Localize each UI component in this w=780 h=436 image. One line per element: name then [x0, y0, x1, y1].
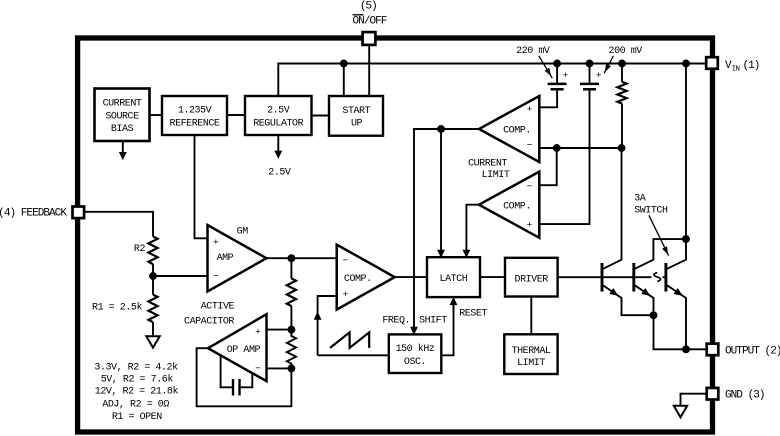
wire rail to switch collectors [685, 64, 687, 240]
resistor current sense lead [621, 64, 623, 82]
svg-text:ACTIVE: ACTIVE [201, 302, 235, 313]
junction emitters node [651, 312, 657, 318]
junction op-amp + input [288, 327, 294, 333]
box 2.5V REGULATOR [245, 96, 312, 135]
transistor Q2 base bar [632, 263, 635, 292]
wire ON/OFF pin to START UP [368, 40, 370, 96]
wire op-amp feedback loop [197, 348, 292, 406]
wire Q1 emitter [602, 285, 654, 316]
svg-text:SOURCE: SOURCE [105, 111, 139, 122]
svg-text:(1): (1) [743, 60, 760, 72]
wire bias to reference [150, 114, 163, 116]
wire junction to GM amp - input [153, 275, 208, 277]
svg-text:CAPACITOR: CAPACITOR [184, 317, 234, 328]
wire regulator to startup [312, 115, 330, 117]
arrow Q2 emitter [641, 288, 652, 299]
resistor R2 [148, 237, 157, 265]
junction output node [683, 346, 689, 352]
wire node to op-amp + input [267, 329, 292, 331]
sawtooth waveform symbol [330, 332, 369, 348]
svg-text:2.5V: 2.5V [267, 106, 290, 117]
wire oscillator reset to latch [441, 304, 453, 355]
box 150 kHz OSC [389, 334, 442, 373]
wire comp2 output to latch [466, 205, 479, 251]
svg-text:3A: 3A [634, 194, 646, 205]
svg-text:ADJ, R2 = 0Ω: ADJ, R2 = 0Ω [102, 399, 169, 410]
wire emitters to output [654, 315, 707, 349]
wire feedback pin to R2 [78, 212, 153, 237]
wire R1 to ground [152, 322, 154, 336]
svg-text:+: + [527, 104, 533, 115]
svg-text:DRIVER: DRIVER [515, 274, 549, 285]
svg-text:3.3V, R2 = 4.2k: 3.3V, R2 = 4.2k [94, 361, 178, 373]
wire Q2 emitter [634, 285, 654, 316]
capacitor integrator leads [221, 355, 253, 387]
box DRIVER [505, 258, 558, 297]
wire reference to GM amp + input [195, 135, 208, 238]
svg-text:−: − [527, 181, 533, 192]
junction GM output/active capacitor [288, 255, 294, 261]
wire VIN rail [278, 64, 712, 97]
pin (5) ON/OFF [363, 32, 376, 45]
capacitor integrator plates [233, 379, 240, 396]
arrow Q1 emitter [609, 288, 620, 299]
wire reference to regulator [227, 114, 245, 116]
wire Q3 collector [666, 239, 686, 269]
svg-text:150 kHz: 150 kHz [396, 343, 435, 355]
svg-text:THERMAL: THERMAL [512, 346, 551, 357]
resistor R1 [148, 295, 157, 323]
arrow into latch top 2 [463, 250, 471, 258]
wire junction to R1 [152, 276, 154, 295]
junction rail/switch collector [683, 61, 689, 67]
svg-text:LATCH: LATCH [440, 274, 468, 285]
wire comp2 - input [539, 148, 556, 185]
junction comp1 output/latch set [438, 126, 444, 132]
svg-text:200 mV: 200 mV [609, 46, 643, 57]
svg-text:(5): (5) [360, 1, 377, 13]
svg-text:GND (3): GND (3) [725, 390, 765, 402]
svg-text:R1 = 2.5k: R1 = 2.5k [92, 301, 142, 313]
comparator U2 current limit bottom [479, 172, 539, 238]
svg-text:12V, R2 = 21.8k: 12V, R2 = 21.8k [95, 386, 179, 398]
resistor Ra active capacitor [287, 278, 296, 306]
comparator U1 current limit top [479, 96, 539, 162]
junction rail/startup [341, 61, 347, 67]
svg-text:−: − [342, 255, 348, 266]
svg-text:BIAS: BIAS [111, 124, 134, 135]
capacitor C2 plates [580, 84, 599, 89]
box THERMAL LIMIT [504, 334, 557, 374]
svg-text:OP AMP: OP AMP [227, 345, 261, 356]
wire comp1 output to latch [440, 129, 442, 251]
svg-text:+: + [255, 327, 261, 338]
svg-text:−: − [213, 270, 219, 281]
junction op-amp - input [288, 365, 294, 371]
wire Q2 collector [634, 239, 686, 269]
arrow 200 mV callout [604, 56, 613, 73]
arrow into latch top 1 [437, 250, 445, 258]
junction rail/cap2 [587, 61, 593, 67]
wire driver to thermal limit [530, 297, 532, 335]
arrow reset into latch [450, 297, 458, 305]
svg-text:220 mV: 220 mV [516, 46, 550, 57]
junction comp1-/comp2- [554, 145, 560, 151]
op-amp GM AMP [208, 225, 267, 292]
ground symbol below R1 [146, 336, 159, 347]
svg-text:UP: UP [351, 119, 363, 130]
arrow bias ground current [122, 141, 124, 153]
svg-text:RESET: RESET [459, 308, 487, 319]
svg-text:IN: IN [732, 66, 740, 74]
pin (4) FEEDBACK [73, 207, 85, 219]
junction rail/cap1 [554, 61, 560, 67]
junction sense/Q1 collector [619, 145, 625, 151]
transistor Q1 base bar [601, 263, 604, 292]
wire Q3 emitter [666, 285, 686, 350]
arrow on oscillator ramp line [314, 312, 322, 320]
case border [78, 38, 713, 432]
svg-text:COMP.: COMP. [503, 125, 531, 136]
wire R2 to junction [152, 264, 154, 276]
arrow 3A switch callout [649, 215, 669, 255]
junction switch collector node [683, 236, 689, 242]
base resistor squiggle Q3 [654, 273, 661, 282]
wire comp1 - input line [539, 147, 621, 149]
comparator main COMP [337, 245, 395, 310]
wire base line driver to transistors [558, 276, 666, 278]
wire current limit comp output to freq shift [414, 129, 479, 327]
wire oscillator output [318, 354, 389, 356]
svg-text:R2: R2 [134, 244, 146, 255]
arrow 220 mV callout [539, 56, 553, 78]
svg-text:START: START [342, 106, 370, 117]
svg-text:CURRENT: CURRENT [468, 159, 507, 170]
wire sense resistor to junction [621, 104, 623, 148]
svg-text:SHIFT: SHIFT [419, 316, 447, 327]
wire comparator output to latch [395, 276, 427, 278]
svg-text:OSC.: OSC. [404, 357, 426, 368]
svg-text:FREQ.: FREQ. [382, 316, 410, 327]
svg-text:(4) FEEDBACK: (4) FEEDBACK [0, 207, 67, 219]
svg-text:+: + [563, 70, 569, 81]
wire Ra to op-amp + node [290, 306, 292, 330]
pin (3) GND [707, 388, 719, 400]
wire GM amp output to comparator [266, 257, 336, 259]
pin (1) VIN [706, 57, 718, 69]
svg-text:LIMIT: LIMIT [482, 170, 510, 181]
box LATCH [427, 257, 480, 297]
wire GND pin to ground [681, 394, 707, 406]
svg-text:5V, R2 = 7.6k: 5V, R2 = 7.6k [101, 373, 174, 385]
capacitor C1 220mV lead [556, 64, 558, 83]
svg-text:ON/OFF: ON/OFF [353, 16, 387, 28]
svg-text:−: − [527, 140, 533, 151]
svg-text:GM: GM [237, 227, 249, 238]
junction R2/R1/GM- [150, 273, 156, 279]
svg-text:+: + [342, 289, 348, 300]
svg-text:OUTPUT (2): OUTPUT (2) [725, 345, 780, 357]
arrow 2.5V regulator output [277, 136, 279, 151]
box START UP [329, 96, 383, 136]
wire GM output to Ra [290, 258, 292, 278]
svg-text:+: + [213, 237, 219, 248]
wire C2 to comp2 + input [539, 91, 589, 225]
wire comparator + input to oscillator [318, 296, 337, 355]
svg-text:AMP: AMP [217, 253, 234, 264]
svg-text:+: + [527, 220, 533, 231]
svg-text:−: − [255, 363, 261, 374]
arrow freq shift into oscillator [410, 327, 418, 335]
pin (2) OUTPUT [707, 344, 719, 356]
wire node to op-amp - input [267, 367, 292, 369]
arrow Q3 emitter [674, 288, 685, 299]
svg-text:+: + [596, 70, 602, 81]
svg-text:CURRENT: CURRENT [103, 98, 142, 109]
wire latch to driver [480, 276, 505, 278]
resistor current sense [617, 82, 626, 104]
svg-text:SWITCH: SWITCH [634, 206, 668, 217]
svg-text:2.5V: 2.5V [268, 168, 291, 179]
svg-text:R1 = OPEN: R1 = OPEN [112, 412, 162, 423]
svg-text:REFERENCE: REFERENCE [170, 119, 220, 130]
op-amp OP AMP [208, 314, 267, 381]
svg-text:LIMIT: LIMIT [517, 358, 545, 369]
capacitor C2 200mV lead [589, 64, 591, 83]
svg-text:REGULATOR: REGULATOR [253, 119, 303, 130]
svg-text:COMP.: COMP. [344, 274, 372, 285]
resistor Rb active capacitor [287, 330, 296, 369]
svg-text:COMP.: COMP. [503, 201, 531, 212]
junction rail/sense resistor [619, 61, 625, 67]
wire rail to START UP [343, 64, 345, 97]
capacitor C1 plates [548, 84, 567, 89]
transistor Q3 base bar [664, 263, 667, 292]
svg-text:1.235V: 1.235V [178, 106, 212, 117]
ground symbol GND pin [674, 406, 687, 418]
wire Q1 collector [602, 148, 622, 269]
wire C1 to comp1 + input [539, 91, 557, 108]
box CURRENT SOURCE BIAS [95, 89, 150, 142]
box 1.235V REFERENCE [162, 96, 227, 135]
